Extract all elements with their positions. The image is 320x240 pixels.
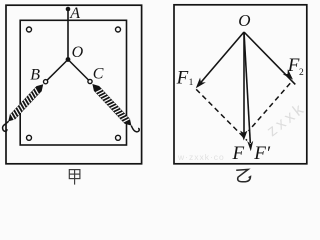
svg-text:B: B [30,67,40,84]
svg-text:A: A [69,5,80,22]
pin hole bottom-left [27,135,32,140]
svg-text:2: 2 [299,68,304,78]
spring left body [6,82,46,124]
svg-text:O: O [238,11,250,30]
pin hole top-left [27,27,32,32]
pin hole bottom-right [116,135,121,140]
point A pin [66,7,71,12]
svg-text:F: F [287,55,300,76]
wire A-O [67,9,69,60]
svg-text:C: C [93,65,104,82]
caption jia (Chinese char drawn) [69,170,80,185]
dashed side F2 to F-prime [249,83,291,131]
board outer rectangle [6,5,142,164]
spring right end hook [131,126,139,132]
svg-text:F: F [232,143,245,164]
svg-text:F′: F′ [253,143,271,164]
svg-text:O: O [72,44,84,61]
vector F1 shaft [201,32,244,82]
svg-text:F: F [176,67,189,88]
paper inner rectangle [20,20,126,145]
vector F-prime arrowhead [247,141,253,152]
spring right body [90,82,134,128]
string O-B [47,60,68,81]
vector F arrowhead [240,131,247,141]
vector F-prime shaft [244,32,250,143]
pin hole top-right [116,27,121,32]
vector F1 arrowhead [196,78,206,89]
vector F2 arrowhead [283,69,293,80]
caption yi (Chinese char drawn) [236,169,250,181]
string O-C [68,60,89,81]
svg-text:w·zxxk·co: w·zxxk·co [177,152,225,162]
node O (left panel) [66,57,71,62]
spring left end hook [3,121,9,131]
hook ring C [88,79,92,83]
dashed side F1 to F-prime [196,89,247,140]
vector F2 shaft [244,32,295,84]
vector F shaft [243,32,245,133]
svg-text:1: 1 [189,78,194,88]
hook ring B [44,80,48,84]
diagram frame (right panel) [174,5,307,164]
